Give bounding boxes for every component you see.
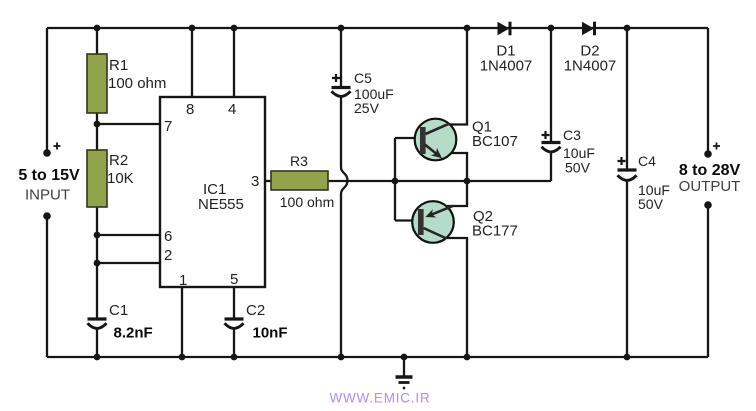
svg-text:2: 2 <box>164 247 172 264</box>
svg-text:50V: 50V <box>638 196 664 212</box>
svg-text:C3: C3 <box>563 127 581 143</box>
svg-text:C2: C2 <box>246 302 265 319</box>
svg-text:5: 5 <box>230 271 238 288</box>
svg-text:7: 7 <box>164 118 172 135</box>
svg-text:BC177: BC177 <box>472 223 518 240</box>
svg-text:WWW.EMIC.IR: WWW.EMIC.IR <box>329 391 430 406</box>
svg-text:C4: C4 <box>638 153 656 169</box>
svg-text:6: 6 <box>164 228 172 245</box>
svg-text:10K: 10K <box>107 170 134 187</box>
svg-text:NE555: NE555 <box>198 196 244 213</box>
svg-text:8: 8 <box>186 101 194 118</box>
svg-text:4: 4 <box>228 101 236 118</box>
svg-text:100 ohm: 100 ohm <box>108 75 166 92</box>
svg-text:OUTPUT: OUTPUT <box>679 178 741 195</box>
svg-text:50V: 50V <box>565 160 591 176</box>
svg-text:1N4007: 1N4007 <box>564 58 617 75</box>
svg-text:R3: R3 <box>290 153 308 169</box>
svg-text:BC107: BC107 <box>472 133 518 150</box>
svg-text:R2: R2 <box>109 152 128 169</box>
svg-text:100 ohm: 100 ohm <box>280 194 334 210</box>
svg-text:5 to 15V: 5 to 15V <box>18 167 80 184</box>
svg-text:8 to 28V: 8 to 28V <box>679 162 741 179</box>
svg-text:10nF: 10nF <box>253 325 288 342</box>
svg-text:25V: 25V <box>354 100 380 116</box>
svg-text:C1: C1 <box>109 302 128 319</box>
svg-text:1: 1 <box>179 272 187 289</box>
svg-text:1N4007: 1N4007 <box>480 58 533 75</box>
svg-text:8.2nF: 8.2nF <box>114 325 153 342</box>
svg-text:R1: R1 <box>109 57 128 74</box>
svg-text:C5: C5 <box>354 70 372 86</box>
svg-text:3: 3 <box>251 173 259 190</box>
svg-text:INPUT: INPUT <box>25 187 70 204</box>
